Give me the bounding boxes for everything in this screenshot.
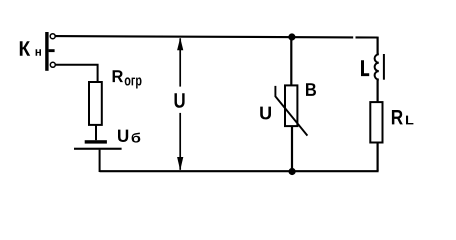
- label b subscript of Ub: [132, 133, 141, 143]
- wire battery to bottom rail: [99, 150, 101, 172]
- voltage arrow lower segment: [179, 113, 181, 170]
- wire top rail left segment: [55, 36, 353, 37]
- wire right branch bottom: [377, 143, 379, 172]
- inductor L coil: [375, 54, 379, 79]
- battery Ub long thin plate: [74, 148, 122, 150]
- switch Kn actuator tick: [49, 49, 55, 52]
- inductor L core line: [383, 54, 385, 80]
- resistor RL body: [370, 102, 382, 142]
- switch Kn top contact circle: [50, 34, 55, 39]
- wire Rogr to battery: [95, 125, 97, 140]
- node bottom junction: [289, 168, 296, 175]
- label ogr subscript of Rogr: [125, 77, 142, 88]
- label K of Kn switch: [20, 41, 30, 56]
- battery Ub short thick plate: [85, 140, 107, 143]
- wire varistor branch bottom: [291, 126, 293, 171]
- varistor B diagonal stroke: [275, 86, 307, 136]
- node top junction: [288, 33, 295, 40]
- wire between L and RL: [377, 80, 379, 103]
- label L inductor: [361, 60, 369, 76]
- switch Kn push-bar: [45, 32, 48, 71]
- label U varistor voltage: [260, 107, 271, 120]
- label R of Rogr: [113, 70, 123, 82]
- wire switch to Rogr: [55, 65, 97, 82]
- label U of Ub battery: [118, 130, 128, 142]
- wire top rail right segment: [356, 36, 378, 38]
- voltage arrow lower head: [177, 157, 183, 170]
- label L subscript of RL: [406, 116, 413, 125]
- voltage arrow upper head: [177, 38, 183, 50]
- wire bottom rail: [100, 170, 379, 172]
- varistor B body: [285, 85, 297, 126]
- label U applied voltage: [175, 93, 185, 108]
- label n subscript of Kn: [36, 49, 41, 56]
- switch Kn bottom contact circle: [50, 62, 55, 67]
- label R of RL: [392, 110, 403, 124]
- label B varistor designator: [306, 83, 316, 96]
- wire varistor branch top: [290, 37, 292, 85]
- resistor Rogr body: [89, 82, 102, 125]
- voltage arrow upper segment: [179, 38, 181, 86]
- wire right branch top: [377, 37, 379, 55]
